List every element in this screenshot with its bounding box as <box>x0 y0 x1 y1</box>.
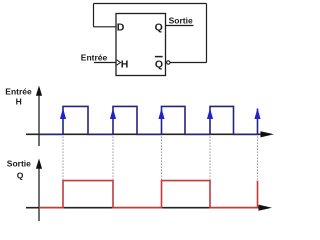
Q axis vertical <box>38 165 40 221</box>
H axis vertical <box>38 92 40 146</box>
svg-text:Entrée: Entrée <box>5 87 32 97</box>
rising edge arrow 4 <box>207 108 213 119</box>
svg-text:Q: Q <box>155 59 163 71</box>
svg-text:Q: Q <box>155 21 163 33</box>
clock waveform H (blue) <box>39 106 258 134</box>
svg-text:Q: Q <box>17 171 24 181</box>
svg-text:Sortie: Sortie <box>7 159 31 169</box>
wire: Q output (Sortie stub) <box>166 25 194 27</box>
svg-text:H: H <box>121 59 129 71</box>
Q axis horizontal <box>26 207 261 209</box>
node guide dotted line 5 <box>257 137 259 180</box>
clock edge triangle <box>117 60 121 65</box>
Q axis right arrowhead <box>259 205 273 211</box>
Q axis up arrowhead <box>36 159 42 169</box>
svg-text:Entrée: Entrée <box>81 53 108 63</box>
rising edge arrow 3 <box>158 108 164 119</box>
rising edge arrow 5 <box>254 108 260 119</box>
rising edge arrow 2 <box>110 108 116 119</box>
inversion bubble on Q-bar output <box>167 61 170 64</box>
wire: feedback left vertical <box>93 4 95 27</box>
D flip-flop U1 box <box>116 14 166 76</box>
output waveform Q (red) <box>39 181 258 208</box>
node guide dotted line 1 <box>62 137 64 180</box>
wire: feedback right vertical <box>206 4 208 63</box>
H axis horizontal <box>26 133 263 135</box>
Q-bar overline <box>155 56 163 58</box>
H axis up arrowhead <box>36 86 42 96</box>
wire: D input from feedback <box>94 26 117 28</box>
svg-text:D: D <box>117 21 125 33</box>
wire: Entree input to H <box>94 62 116 64</box>
wire: Q-bar output to feedback <box>170 62 206 64</box>
svg-text:H: H <box>16 97 22 107</box>
node guide dotted line 3 <box>161 137 163 180</box>
wire: feedback top horizontal <box>94 3 207 5</box>
node guide dotted line 2 <box>112 137 114 180</box>
H axis right arrowhead <box>261 131 275 137</box>
rising edge arrow 1 <box>60 108 66 119</box>
svg-text:Sortie: Sortie <box>169 16 193 26</box>
node guide dotted line 4 <box>209 137 211 180</box>
